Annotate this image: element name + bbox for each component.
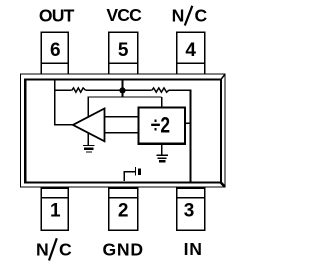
- wire comparator reference to ground: [87, 133, 89, 145]
- svg-text:C: C: [194, 6, 207, 26]
- svg-text:N: N: [36, 240, 49, 260]
- op-amp U1 (comparator, output points left): [73, 109, 105, 142]
- svg-text:1: 1: [50, 201, 61, 222]
- wire comparator to divider (lower): [105, 132, 139, 134]
- svg-text:N: N: [172, 6, 185, 26]
- wire down into divider top: [161, 97, 163, 107]
- svg-text:IN: IN: [184, 239, 203, 259]
- package bevel bottom-right: [221, 182, 225, 187]
- resistor R2 (pull-up, right): [152, 88, 169, 92]
- svg-text:6: 6: [50, 40, 61, 61]
- package bevel top-right: [221, 74, 225, 80]
- wire comparator to divider (upper): [105, 116, 139, 118]
- pin 6 lead: [41, 32, 68, 74]
- svg-text:2: 2: [118, 201, 129, 222]
- wire down to comparator inverting input: [87, 96, 89, 118]
- svg-text:GND: GND: [102, 239, 144, 259]
- svg-text:4: 4: [185, 40, 196, 61]
- wire comparator input rail: [88, 96, 161, 98]
- svg-text:3: 3: [184, 201, 195, 222]
- pin 3 lead: [177, 188, 205, 230]
- package outline outer: [21, 74, 226, 187]
- svg-text:OUT: OUT: [39, 6, 75, 26]
- wire top rail left segment: [54, 89, 72, 91]
- node VCC junction dot: [119, 87, 125, 93]
- net label N/C (pin 1): [36, 238, 72, 260]
- wire rail resistor to VCC node: [86, 89, 123, 91]
- ground (divider): [156, 155, 168, 161]
- wire VCC pin 5 stem: [122, 81, 124, 98]
- wire divider to ground: [161, 145, 163, 155]
- svg-text:5: 5: [118, 40, 129, 61]
- wire rail resistor R2 to right corner: [169, 89, 192, 91]
- pin 4 lead: [177, 32, 205, 74]
- wire IN riser (pin 3 up to divider side): [190, 90, 192, 182]
- svg-text:÷2: ÷2: [151, 113, 170, 137]
- svg-text:C: C: [59, 240, 72, 260]
- pin 5 lead: [109, 32, 138, 74]
- wire op-amp output to pin-6 stem: [54, 124, 73, 126]
- package top face outline (thick): [25, 80, 221, 183]
- capacitor C1 plate (thick): [138, 169, 141, 175]
- divider U2 box: [139, 108, 185, 144]
- wire rail VCC node to resistor R2: [123, 89, 152, 91]
- wire from pin 6 down into die: [54, 81, 56, 126]
- pin 1 lead: [41, 188, 68, 230]
- svg-text:VCC: VCC: [106, 5, 142, 25]
- capacitor C1 plate (thin): [135, 167, 137, 176]
- ground (op-amp): [83, 146, 95, 153]
- wire divider output stub to IN riser: [185, 122, 191, 124]
- wire ground-rail riser above pin 2: [124, 172, 135, 181]
- net label N/C (pin 4): [172, 6, 208, 26]
- pin 2 lead: [109, 188, 138, 230]
- resistor R1 (pull-up, left): [72, 88, 86, 92]
